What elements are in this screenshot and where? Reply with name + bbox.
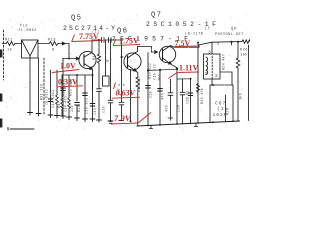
svg-text:Q5: Q5 xyxy=(71,15,83,23)
svg-text:C13: C13 xyxy=(94,108,98,115)
svg-text:8: 8 xyxy=(52,49,55,53)
svg-text:7.9V: 7.9V xyxy=(114,113,132,123)
svg-text:R18 B22: R18 B22 xyxy=(149,63,153,79)
svg-text:FL-0852: FL-0852 xyxy=(19,29,37,33)
svg-text:R11 318: R11 318 xyxy=(41,84,45,100)
svg-text:1.11V: 1.11V xyxy=(179,64,199,73)
svg-text:3: 3 xyxy=(208,50,211,56)
svg-text:C67: C67 xyxy=(215,101,226,107)
svg-text:FL2: FL2 xyxy=(20,25,28,29)
svg-text:C1b 022: C1b 022 xyxy=(153,64,158,80)
svg-text:1k8: 1k8 xyxy=(239,93,244,100)
svg-text:C16 103: C16 103 xyxy=(86,98,90,114)
svg-text:4k7: 4k7 xyxy=(105,59,112,64)
svg-text:R13: R13 xyxy=(48,39,56,43)
svg-text:C44 C412: C44 C412 xyxy=(52,90,56,108)
svg-text:2SC2714-Y: 2SC2714-Y xyxy=(63,25,115,32)
svg-text:3: 3 xyxy=(217,41,220,47)
svg-text:19k: 19k xyxy=(240,53,248,58)
svg-text:C14 473: C14 473 xyxy=(65,96,69,112)
svg-text:102P: 102P xyxy=(213,112,228,118)
svg-text:Q7: Q7 xyxy=(151,12,163,20)
svg-text:C16: C16 xyxy=(150,91,154,98)
svg-text:1.75V: 1.75V xyxy=(119,37,139,46)
svg-text:1k: 1k xyxy=(7,48,13,53)
svg-text:R11: R11 xyxy=(5,39,13,43)
svg-text:Cb-D122: Cb-D122 xyxy=(45,89,50,105)
svg-text:0.63V: 0.63V xyxy=(116,89,136,98)
svg-text:1.0V: 1.0V xyxy=(60,62,76,71)
svg-text:R28: R28 xyxy=(227,108,231,115)
svg-text:220: 220 xyxy=(71,105,75,112)
svg-text:Q6: Q6 xyxy=(117,28,129,36)
svg-text:POSTGNL-DET: POSTGNL-DET xyxy=(215,33,244,37)
svg-text:R47: R47 xyxy=(58,101,62,108)
svg-text:C2b: C2b xyxy=(176,105,181,112)
svg-text:R26: R26 xyxy=(240,49,248,53)
svg-text:1: 1 xyxy=(205,71,208,77)
svg-text:2: 2 xyxy=(215,73,218,79)
svg-text:4bD: 4bD xyxy=(158,74,163,81)
svg-text:C15: C15 xyxy=(103,106,107,113)
svg-text:R15 4k7: R15 4k7 xyxy=(137,76,142,92)
svg-text:7.75V: 7.75V xyxy=(79,32,99,41)
svg-text:476: 476 xyxy=(162,93,166,100)
svg-text:R12: R12 xyxy=(93,53,97,60)
svg-text:R35 47k: R35 47k xyxy=(200,88,205,104)
svg-text:47k: 47k xyxy=(118,83,125,88)
svg-text:L7: L7 xyxy=(205,28,210,32)
svg-text:0.33V: 0.33V xyxy=(58,78,78,87)
